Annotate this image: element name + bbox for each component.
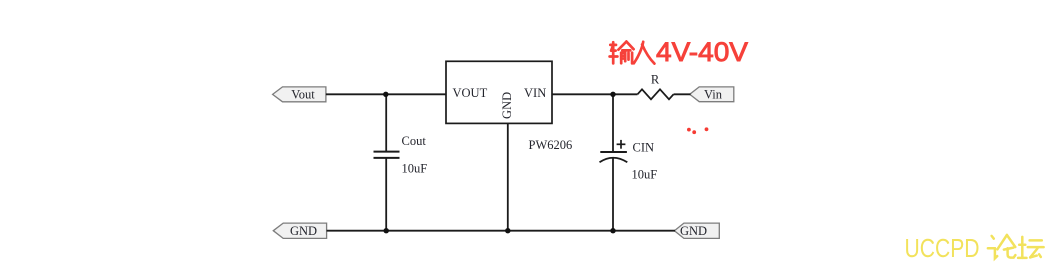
watermark glyph 论 xyxy=(988,235,1016,258)
port GND right xyxy=(674,223,719,238)
port Vout xyxy=(273,87,326,102)
svg-text:VOUT: VOUT xyxy=(453,86,488,100)
svg-text:Cout: Cout xyxy=(402,134,427,148)
svg-text:UCCPD: UCCPD xyxy=(905,233,980,262)
wire CIN bottom lead xyxy=(612,158,614,231)
svg-text:VIN: VIN xyxy=(524,86,546,100)
capacitor Cout xyxy=(374,152,400,158)
junction top at CIN xyxy=(610,92,615,97)
port GND left xyxy=(273,223,326,238)
svg-text:10uF: 10uF xyxy=(402,162,428,176)
junction bottom at CIN xyxy=(610,228,615,233)
annotation red text 输入4V-40V xyxy=(610,42,655,64)
annotation red dot 3 xyxy=(705,127,709,131)
junction bottom at U1 GND xyxy=(505,228,510,233)
annotation red dot 1 xyxy=(687,128,691,132)
wire top right (U1.VIN to resistor) xyxy=(552,93,638,95)
wire top left (Vout port to U1.VOUT) xyxy=(326,93,446,95)
op-amp U1 PW6206 body xyxy=(446,61,552,123)
junction top at Cout xyxy=(383,92,388,97)
port Vin xyxy=(690,87,734,102)
junction bottom at Cout xyxy=(384,228,389,233)
svg-text:PW6206: PW6206 xyxy=(529,138,573,152)
svg-text:GND: GND xyxy=(500,92,514,119)
hand-drawn glyph 输 xyxy=(610,42,634,64)
capacitor CIN (polarized) xyxy=(600,140,628,162)
svg-text:Vin: Vin xyxy=(704,87,723,101)
resistor R xyxy=(638,89,674,99)
svg-text:Vout: Vout xyxy=(291,88,315,102)
wire CIN top lead xyxy=(612,94,614,152)
wire Cout bottom lead xyxy=(385,158,387,231)
watermark glyph 坛 xyxy=(1018,237,1044,258)
svg-text:GND: GND xyxy=(680,224,707,238)
svg-text:4V-40V: 4V-40V xyxy=(656,37,748,67)
wire resistor to Vin port xyxy=(674,93,691,95)
svg-text:CIN: CIN xyxy=(633,140,655,154)
hand-drawn glyph 入 xyxy=(634,42,655,64)
wire Cout top lead xyxy=(385,94,387,151)
wire U1 GND pin lead xyxy=(507,123,509,230)
svg-text:GND: GND xyxy=(290,224,317,238)
svg-text:R: R xyxy=(651,73,660,87)
svg-text:10uF: 10uF xyxy=(632,168,658,182)
wire bottom (GND rail) xyxy=(327,230,675,232)
annotation red dot 2 xyxy=(692,130,696,134)
